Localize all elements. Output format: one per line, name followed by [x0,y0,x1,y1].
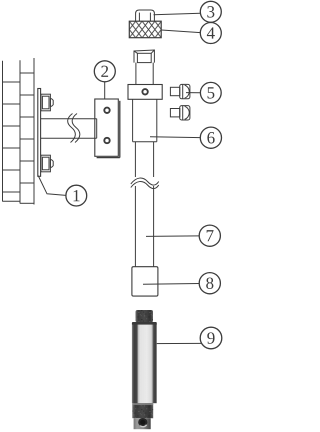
tower rungs right column [20,73,34,203]
item 9 body [132,325,157,404]
pole segment photo (item 9) [132,310,157,429]
leader 6 [150,136,200,139]
bolt top (item 1) [41,94,53,111]
digit 2 [101,66,108,77]
item 9 lower knurled section [132,403,153,418]
collar hole [142,89,147,94]
tower rail middle [19,60,21,203]
tower rungs left column [3,82,21,201]
callout circle 1 [66,185,87,206]
digit 1 [74,190,80,201]
leader 9 [147,342,202,344]
digit 5 [208,87,215,98]
coupler sleeve (item 8) [132,267,158,296]
item 9 bottom band [134,418,151,429]
leader 5 [186,92,200,94]
set bolt B (item 5) [170,106,190,120]
leader 2 [104,82,106,99]
bracket plate U2 (item 2) [95,99,120,158]
digit 7 [207,230,214,241]
lower tube lower part (item 7) [135,186,153,267]
tube break squiggle [131,178,159,189]
bracket hole bottom [104,138,109,143]
callout circle 7 [199,225,220,246]
arm break squiggle [68,114,80,143]
leader 7 [146,235,199,238]
callout circle 3 [200,1,221,22]
upper tube (item 6) [133,99,157,141]
knurled knob (item 4) [129,21,161,38]
callout circle 4 [200,23,221,44]
tower rail right [33,58,35,205]
digit 4 [207,27,215,38]
digit 6 [207,132,214,143]
set bolt A (item 5) [170,84,190,98]
callout circle 9 [200,327,222,349]
callout circle 2 [94,61,115,82]
digit 3 [207,6,214,17]
callout circle 8 [199,273,220,294]
tower rail left [2,61,4,202]
clamp collar [128,85,162,100]
item 9 body shoulder [132,322,157,325]
bracket hole top [104,108,109,113]
digit 8 [206,277,213,288]
leader 4 [161,30,200,33]
callout circle 5 [200,82,221,103]
bolt bottom (item 1) [41,155,53,172]
item 9 bottom hole [138,418,147,426]
callout circle 6 [200,127,221,148]
pole top cap [134,50,154,63]
support arm [41,119,97,139]
pole neck [136,63,153,85]
wall plate [38,89,41,177]
knob cap (item 3) [136,10,155,21]
lower tube upper part (item 7) [135,142,153,177]
leader 3 [154,13,201,15]
item 9 top cap [136,310,154,322]
leader 8 [143,283,199,286]
leader 1 [38,176,66,196]
digit 9 [207,332,214,343]
